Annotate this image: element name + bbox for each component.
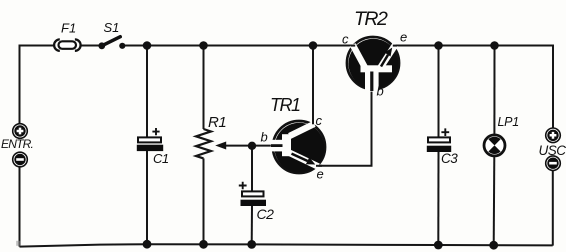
junction: top rail / C3	[434, 41, 443, 50]
wire: TR1 emitter to TR2 base (L-shaped)	[318, 89, 372, 166]
wire: C3 branch upper	[438, 46, 440, 138]
wire: LP1 branch upper	[493, 46, 495, 135]
label + (C1 polarity)	[152, 128, 159, 135]
junction: top rail / TR1 collector	[309, 41, 318, 50]
svg-text:e: e	[317, 167, 324, 182]
wire: C2 branch upper	[251, 146, 253, 192]
svg-text:b: b	[261, 129, 268, 144]
input terminal + (ENTR.)	[13, 124, 28, 139]
svg-text:c: c	[316, 113, 323, 128]
junction: bottom rail / C3	[434, 241, 443, 250]
svg-text:USC.: USC.	[539, 143, 566, 158]
svg-text:C3: C3	[441, 151, 458, 166]
wire: top rail from TR2 emitter to right corner	[395, 46, 554, 129]
wire: LP1 branch lower	[493, 157, 496, 245]
capacitor C3	[427, 137, 451, 152]
wire: right rail lower (from - output terminal to bottom rail)	[552, 170, 554, 245]
wire: R1 branch upper	[203, 46, 205, 130]
svg-text:TR1: TR1	[270, 95, 300, 115]
wire: top rail left segment	[20, 46, 56, 47]
wire: C1 branch lower	[146, 151, 148, 244]
capacitor C2	[241, 191, 267, 206]
wire: top rail between fuse and switch	[80, 45, 100, 47]
junction: R1 wiper / C2 / TR1 base	[248, 142, 256, 150]
fuse F1	[54, 39, 81, 50]
wiper arrow of R1	[215, 142, 226, 150]
svg-text:R1: R1	[208, 114, 226, 131]
scan smudge near bottom-left corner	[16, 241, 21, 246]
output terminal + (USC)	[546, 128, 561, 143]
junction: top rail / LP1	[490, 41, 499, 50]
svg-text:F1: F1	[61, 21, 76, 36]
label + (C2 polarity)	[239, 182, 247, 190]
junction: bottom rail / C1	[143, 240, 152, 249]
output terminal - (USC)	[546, 156, 561, 171]
wire: top rail from switch to TR2 collector	[125, 45, 354, 47]
wire: left rail upper (to + input terminal)	[19, 46, 21, 124]
wire: left rail lower (from - input terminal to bottom rail)	[19, 167, 21, 247]
svg-text:C1: C1	[153, 151, 169, 166]
wire: C2 branch lower	[251, 206, 253, 245]
lamp LP1	[484, 135, 505, 156]
junction: bottom rail / C2	[247, 240, 256, 249]
transistor TR2	[347, 37, 399, 92]
wire: TR1 collector to top rail	[312, 46, 314, 125]
svg-text:ENTR.: ENTR.	[1, 137, 33, 151]
transistor TR1	[271, 116, 325, 173]
svg-text:C2: C2	[257, 206, 275, 222]
junction: top rail / C1	[143, 41, 152, 50]
input terminal - (ENTR.)	[13, 152, 28, 167]
wire: C1 branch upper	[146, 46, 148, 138]
wire: R1 branch lower	[203, 158, 205, 244]
switch S1	[98, 37, 125, 49]
wire: bottom rail	[20, 244, 553, 246]
junction: bottom rail / R1	[199, 240, 208, 249]
capacitor C1	[137, 137, 163, 151]
svg-text:TR2: TR2	[354, 8, 388, 30]
svg-text:c: c	[342, 32, 349, 47]
svg-text:b: b	[377, 83, 384, 98]
svg-text:e: e	[400, 30, 407, 45]
svg-text:LP1: LP1	[498, 115, 519, 129]
junction: top rail / R1	[199, 41, 208, 50]
resistor R1 (potentiometer)	[196, 129, 211, 158]
junction: bottom rail / LP1	[489, 241, 498, 250]
wire: C3 branch lower	[437, 152, 439, 245]
svg-text:S1: S1	[104, 20, 120, 35]
wire: R1 wiper to TR1 base	[226, 145, 274, 147]
label + (C3 polarity)	[441, 128, 449, 136]
